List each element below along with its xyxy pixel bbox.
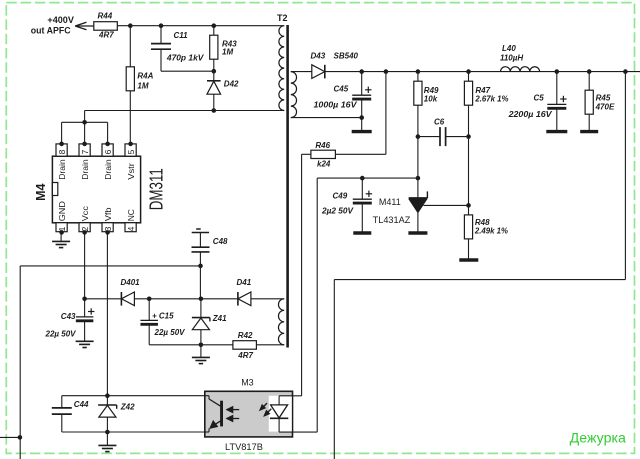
svg-text:4R7: 4R7 [98, 30, 114, 39]
svg-text:M4: M4 [33, 183, 48, 201]
svg-text:1M: 1M [222, 48, 233, 57]
svg-text:D42: D42 [224, 80, 239, 89]
svg-text:T2: T2 [277, 13, 288, 23]
svg-text:C6: C6 [434, 117, 445, 126]
svg-text:10k: 10k [424, 95, 438, 104]
svg-text:R44: R44 [98, 11, 113, 20]
svg-text:1M: 1M [137, 82, 148, 91]
svg-text:M3: M3 [241, 378, 254, 388]
svg-text:C44: C44 [74, 400, 89, 409]
svg-text:NC: NC [126, 209, 136, 221]
svg-text:470p 1kV: 470p 1kV [166, 53, 204, 62]
svg-text:k24: k24 [317, 160, 331, 169]
svg-text:D41: D41 [237, 278, 252, 287]
svg-text:2.49k 1%: 2.49k 1% [474, 227, 508, 236]
svg-text:470E: 470E [595, 102, 615, 111]
svg-text:R49: R49 [424, 86, 439, 95]
svg-text:Drain: Drain [57, 159, 67, 180]
svg-text:C45: C45 [334, 85, 349, 94]
svg-text:R45: R45 [596, 93, 611, 102]
svg-text:3: 3 [103, 226, 113, 231]
svg-text:D401: D401 [121, 278, 141, 287]
svg-text:1000µ 16V: 1000µ 16V [314, 101, 358, 110]
svg-text:C48: C48 [213, 237, 228, 246]
svg-text:DM311: DM311 [145, 168, 166, 210]
svg-text:2.67k 1%: 2.67k 1% [474, 95, 508, 104]
svg-text:2: 2 [80, 226, 90, 231]
svg-text:Vcc: Vcc [80, 206, 90, 221]
svg-text:SB540: SB540 [334, 51, 359, 60]
svg-text:22µ 50V: 22µ 50V [153, 328, 185, 337]
svg-text:1: 1 [57, 226, 67, 231]
svg-text:C43: C43 [61, 312, 76, 321]
svg-text:Vstr: Vstr [126, 163, 136, 180]
svg-text:LTV817B: LTV817B [225, 442, 263, 452]
svg-text:out APFC: out APFC [31, 26, 71, 36]
svg-text:+ C15: + C15 [152, 311, 174, 320]
svg-text:Z41: Z41 [212, 314, 227, 323]
svg-text:Drain: Drain [103, 159, 113, 180]
svg-text:R46: R46 [315, 141, 330, 150]
svg-text:R4A: R4A [137, 72, 153, 81]
svg-text:6: 6 [103, 149, 113, 154]
svg-text:R48: R48 [475, 218, 490, 227]
svg-text:5: 5 [126, 149, 136, 154]
svg-text:4: 4 [126, 226, 136, 231]
svg-text:Drain: Drain [80, 159, 90, 180]
svg-text:2µ2 50V: 2µ2 50V [321, 207, 354, 216]
svg-text:+400V: +400V [47, 15, 74, 25]
svg-text:D43: D43 [311, 51, 326, 60]
svg-text:8: 8 [57, 149, 67, 154]
svg-text:7: 7 [80, 149, 90, 154]
svg-text:Z42: Z42 [120, 403, 135, 412]
svg-text:R42: R42 [238, 331, 253, 340]
svg-text:L40: L40 [502, 44, 516, 53]
svg-text:C49: C49 [333, 192, 348, 201]
svg-text:TL431AZ: TL431AZ [373, 215, 411, 225]
svg-text:Дежурка: Дежурка [570, 430, 626, 446]
svg-text:M411: M411 [379, 197, 401, 207]
svg-text:R47: R47 [475, 86, 490, 95]
svg-text:110µH: 110µH [500, 53, 523, 62]
svg-text:2200µ 16V: 2200µ 16V [507, 110, 552, 119]
svg-text:Vfb: Vfb [103, 207, 113, 221]
svg-text:C5: C5 [534, 93, 545, 102]
svg-text:4R7: 4R7 [237, 351, 253, 360]
svg-text:C11: C11 [174, 31, 189, 40]
svg-text:GND: GND [57, 201, 67, 221]
svg-text:22µ 50V: 22µ 50V [44, 330, 76, 339]
